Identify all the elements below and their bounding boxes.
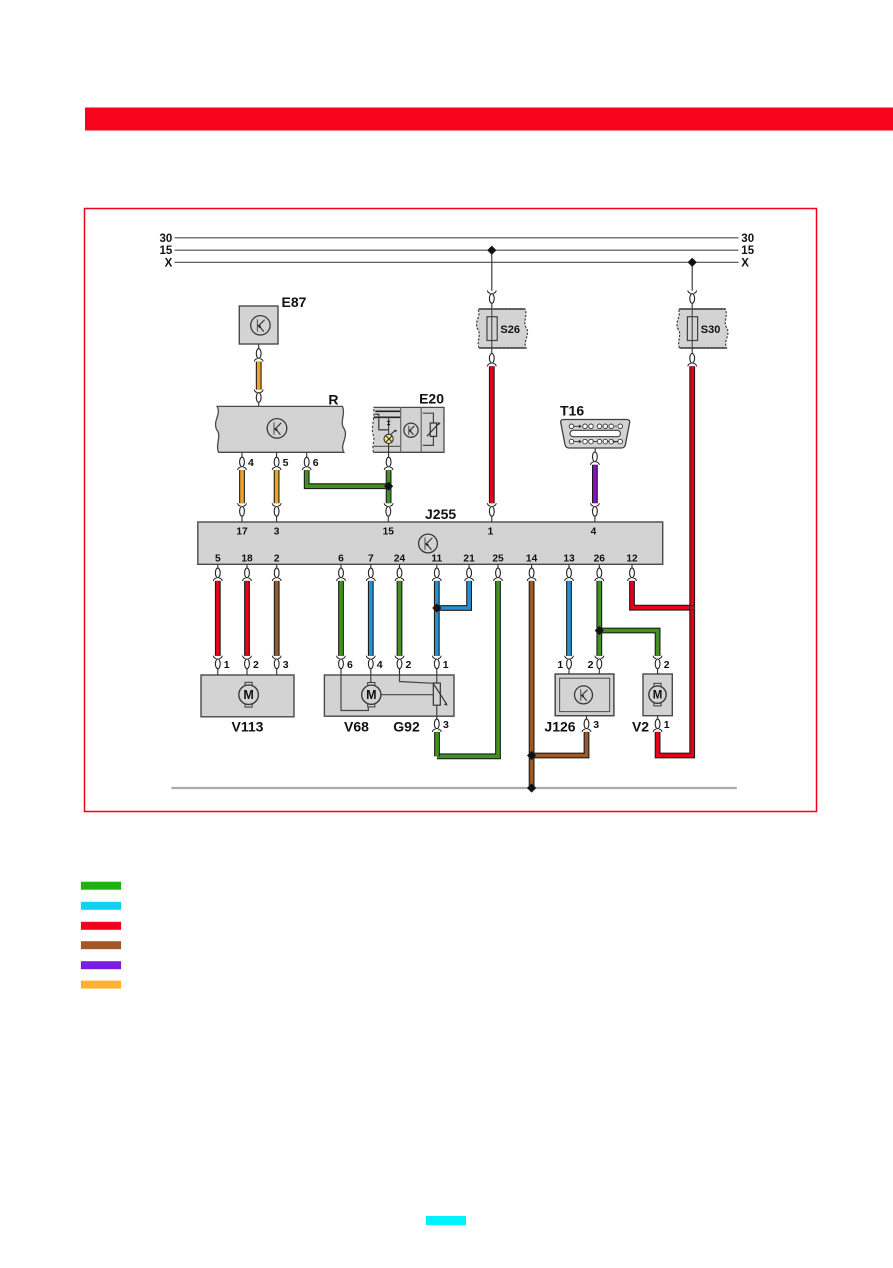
wire J255 pin21 joins pin11 wire (blue) [437,581,469,608]
svg-text:2: 2 [406,659,412,671]
V68/G92 pin 1 connector [434,659,439,669]
J255 bottom connector pin 24 [399,564,401,568]
wire E20 to J255 pin15 (green) [384,467,393,506]
wire J255 pin5 to V113 pin1 (red) [213,581,222,659]
svg-text:7: 7 [368,554,374,565]
J255 bottom connector pin 6 [340,564,342,568]
E20 K symbol [404,423,418,437]
wire J255 pin14 to ground (brown) [529,581,535,787]
R pin 5 connector [274,457,279,467]
svg-text:V68: V68 [344,719,369,735]
T16 pin connector [593,452,598,462]
fuse S30 element [687,317,697,341]
svg-text:E87: E87 [282,294,307,310]
fuse S30 top connector [688,290,697,293]
legend bar orange [81,981,121,989]
svg-text:26: 26 [594,554,606,565]
svg-text:2: 2 [253,659,259,671]
legend bar purple [81,961,121,969]
svg-text:2: 2 [274,554,280,565]
svg-text:15: 15 [383,527,395,538]
fuse S30 box [677,309,728,348]
blower motor V2 [643,674,672,716]
V2 pin1 connector [655,716,670,731]
J255 top connector [489,507,494,517]
svg-text:1: 1 [664,719,670,731]
svg-text:R: R [328,392,338,408]
J255 bottom connector pin 11 [436,564,438,568]
bus line 30 [175,237,739,239]
E87 pin line [258,344,260,349]
box V68 G92 [324,675,454,716]
svg-text:21: 21 [463,554,475,565]
J126 pin 2 connector [597,659,602,669]
svg-text:6: 6 [338,554,344,565]
wire J255 pin24 to G92 pin2 (green) [395,581,404,659]
wire J255 pin2 to V113 pin3 (brown) [272,581,281,659]
fuse S30 bottom connector [691,348,693,354]
J255 bottom connector pin 2 [276,564,278,568]
J255 top connector [386,507,391,517]
svg-text:6: 6 [347,659,353,671]
wire J255 pin25 to G92 pin3 (green) [437,581,498,756]
svg-text:V113: V113 [232,719,264,735]
G92 pin3 connector [432,716,449,732]
junction node blue pins 11/21 [432,603,441,612]
svg-text:1: 1 [443,659,449,671]
wire J255 pin18 to V113 pin2 (red) [243,581,252,659]
legend bar cyan [81,902,121,910]
wire G92 pin3 down (green) [434,732,440,756]
control unit R (radio) [216,406,346,452]
svg-text:1: 1 [224,659,230,671]
R top connector [256,393,261,403]
wire J255 pin7 to V68 pin4 (blue) [366,581,375,659]
R top pin line [258,402,260,406]
J255 bottom connector pin 13 [568,564,570,568]
svg-text:4: 4 [591,527,597,538]
svg-text:M: M [243,688,253,702]
wire R pin6 to node at E20 wire (green) [302,467,388,486]
wire J126 pin3 to ground run (brown) [532,732,587,756]
svg-text:11: 11 [431,554,442,565]
T16 pin line [594,448,596,452]
variable resistor in E20 [423,413,441,445]
svg-text:25: 25 [492,554,504,565]
E87 pin connector [256,349,261,359]
J255 top connector [274,507,279,517]
wire E87 to R (orange) [254,359,263,393]
svg-text:6: 6 [313,457,319,469]
wire J255 pin12 to S30 feed (red) [632,581,690,608]
blower relay J126 [555,674,614,716]
fuse S30 drop line [691,262,693,291]
legend bar green [81,882,121,890]
wire R pin4 to J255 pin17 (orange) [238,467,247,506]
svg-text:18: 18 [241,554,253,565]
svg-text:12: 12 [626,554,638,565]
E20 cell dividers [374,407,422,452]
R pin 6 line [306,452,308,457]
junction node brown J126/pin14 [527,751,536,760]
light switch E20 [372,407,444,452]
svg-text:5: 5 [215,554,221,565]
J255 bottom connector pin 5 [217,564,219,568]
control unit J255 (Climatronic) [198,522,663,564]
J255 bottom connector pin 18 [246,564,248,568]
svg-text:S30: S30 [701,324,721,336]
svg-text:J126: J126 [544,719,575,735]
R pin 6 connector [304,457,309,467]
J255 bottom connector pin 25 [497,564,499,568]
junction node ground [527,783,536,792]
svg-text:3: 3 [443,719,449,731]
svg-text:4: 4 [377,659,383,671]
svg-text:M: M [653,690,663,702]
J255 bottom connector pin 12 [631,564,633,568]
svg-text:30: 30 [160,233,173,245]
svg-text:14: 14 [526,554,538,565]
svg-text:24: 24 [394,554,406,565]
J126 pin 1 connector [567,659,572,669]
svg-text:1: 1 [488,527,494,538]
fuse S26 top connector [487,290,496,293]
V68/G92 pin 4 connector [368,659,373,669]
svg-text:3: 3 [283,659,289,671]
lamp in E20 [384,430,397,444]
wire J255 pin26 to J126 pin2 (green) [595,581,604,659]
V2 pin2 connector [655,659,670,674]
svg-text:V2: V2 [632,719,649,735]
J255 top connector [593,507,598,517]
svg-text:J255: J255 [425,506,456,522]
diagram frame [85,209,817,812]
E20 pin line [388,444,390,458]
J126 pin3 connector [582,716,599,732]
svg-text:4: 4 [248,457,254,469]
svg-text:3: 3 [274,527,280,538]
svg-text:30: 30 [741,233,754,245]
sensor G92 internals [400,675,448,716]
ground bus line [171,787,736,789]
motor V68 internals [341,675,433,711]
fresh air blower V113 [201,675,294,717]
wire J255 pin6 to V68 pin6 (green) [337,581,346,659]
svg-text:13: 13 [563,554,575,565]
svg-text:T16: T16 [560,403,584,419]
legend bar red [81,922,121,930]
bus line X [175,261,739,263]
bus line 15 [175,249,739,251]
junction node green R6/E20 [384,482,393,491]
svg-text:15: 15 [160,245,173,257]
V68/G92 pin 2 connector [397,659,402,669]
wire S26 to J255 pin1 (red) [487,366,496,506]
svg-text:X: X [741,257,749,269]
svg-text:2: 2 [664,659,670,671]
R pin 4 line [241,452,243,457]
V113 pin 3 connector [274,659,279,669]
wire T16 to J255 pin4 (purple) [591,462,600,506]
svg-text:2: 2 [588,659,594,671]
wire R pin5 to J255 pin3 (orange) [272,467,281,506]
svg-text:17: 17 [236,527,248,538]
diagnostic connector T16 [561,420,630,449]
E20 pin connector [386,457,391,467]
svg-text:X: X [165,257,173,269]
svg-text:5: 5 [283,457,289,469]
wire J255 pin11 to G92 pin1 (blue) [432,581,441,659]
switch E87 [239,306,278,344]
fuse S26 bottom connector [491,348,493,354]
wire S30 down to V2 pin1 (red) [653,366,692,755]
svg-text:1: 1 [557,659,563,671]
svg-text:G92: G92 [393,719,420,735]
V113 pin 1 connector [215,659,220,669]
J255 bottom connector pin 21 [468,564,470,568]
fuse S26 element [487,317,497,341]
J255 bottom connector pin 14 [531,564,533,568]
wire branch pin26 to V2 pin2 (green) [599,631,662,659]
R pin 4 connector [240,457,245,467]
tap ring on S30 wire [690,606,694,610]
J255 bottom connector pin 7 [370,564,372,568]
J255 top connector [240,507,245,517]
fuse S26 box [477,309,528,348]
V68/G92 pin 6 connector [339,659,344,669]
wire J255 pin13 to J126 pin1 (blue) [565,581,574,659]
junction node green pins 26/V2 [595,626,604,635]
svg-text:M: M [366,688,376,702]
svg-text:15: 15 [741,245,754,257]
svg-text:3: 3 [593,719,599,731]
footer cyan mark [426,1216,466,1225]
svg-text:S26: S26 [500,324,520,336]
legend bar brown [81,941,121,949]
red header bar [85,108,893,131]
svg-text:E20: E20 [419,391,444,407]
J255 bottom connector pin 26 [598,564,600,568]
R pin 5 line [276,452,278,457]
fuse S26 drop line [491,250,493,291]
V113 pin 2 connector [245,659,250,669]
